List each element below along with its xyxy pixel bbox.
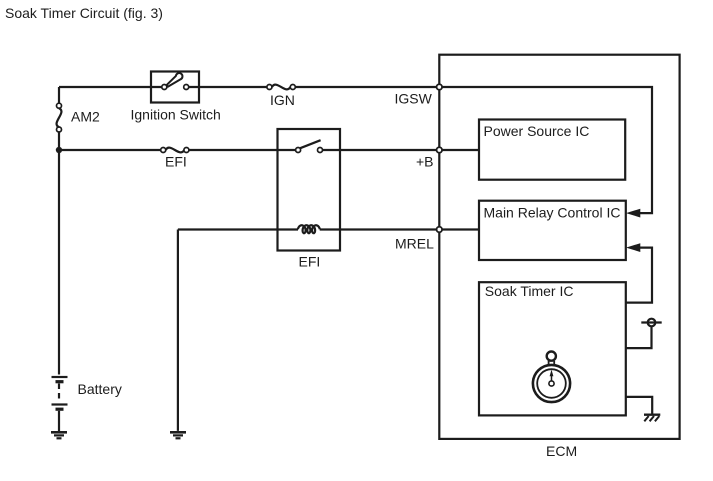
battery B1 (52, 376, 68, 378)
Main Relay Control IC box (479, 201, 626, 260)
wire MREL horizontal (178, 228, 479, 230)
ground battery (51, 431, 67, 434)
svg-text:Power Source IC: Power Source IC (484, 123, 590, 139)
svg-text:Main Relay Control IC: Main Relay Control IC (484, 205, 621, 221)
terminal T1 circle (648, 319, 656, 327)
pin IGSW (437, 84, 443, 90)
stopwatch icon (533, 352, 570, 403)
ignition switch lever (167, 73, 183, 87)
svg-text:Soak Timer Circuit (fig. 3): Soak Timer Circuit (fig. 3) (5, 5, 163, 21)
fuse EFI (166, 148, 185, 153)
wire top horizontal IGSW feed (59, 86, 439, 88)
pin MREL (437, 227, 443, 233)
pin +B (437, 147, 443, 153)
relay switch lever (300, 140, 320, 148)
svg-text:+B: +B (416, 154, 434, 170)
wire Soak Timer to chassis ground (626, 397, 652, 414)
svg-text:AM2: AM2 (71, 109, 100, 125)
ignition switch box (151, 72, 199, 103)
arrowhead into Main Relay Control IC (from Soak Timer) (626, 243, 640, 252)
svg-text:EFI: EFI (299, 254, 321, 270)
relay EFI box (278, 129, 341, 251)
Power Source IC box (479, 120, 625, 180)
ignition switch contacts (162, 85, 167, 90)
svg-text:MREL: MREL (395, 235, 434, 251)
Soak Timer IC box (479, 282, 626, 415)
wire left vertical from top corner (58, 87, 60, 375)
fuse IGN (272, 85, 290, 90)
svg-text:EFI: EFI (165, 154, 187, 170)
wire Soak Timer output to terminal (626, 327, 652, 348)
svg-text:Battery: Battery (78, 381, 122, 397)
relay contacts (296, 148, 301, 153)
ECM box (439, 55, 679, 439)
wire IGSW internal route (439, 87, 652, 213)
wire +B horizontal (59, 149, 479, 151)
svg-text:Ignition Switch: Ignition Switch (131, 107, 221, 123)
node A junction dot (56, 147, 62, 153)
wire Soak Timer to Main Relay Control (626, 248, 652, 303)
relay coil L1 (298, 225, 320, 233)
fuse AM2 (57, 108, 62, 127)
ground relay coil (170, 431, 186, 434)
chassis ground ECM (644, 414, 660, 416)
svg-text:IGSW: IGSW (395, 91, 433, 107)
arrowhead into Main Relay Control IC (from IGSW) (626, 209, 640, 218)
wire coil ground vertical (177, 230, 179, 431)
svg-text:ECM: ECM (546, 443, 577, 459)
svg-text:IGN: IGN (270, 92, 295, 108)
svg-text:Soak Timer IC: Soak Timer IC (485, 283, 574, 299)
